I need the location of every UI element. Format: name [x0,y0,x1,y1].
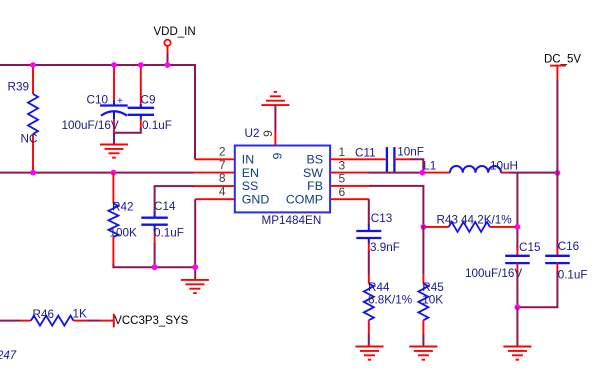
wire [368,334,370,347]
svg-text:0.1uF: 0.1uF [142,119,172,132]
inductor L1 [423,160,518,173]
wire [425,172,450,174]
junction [138,62,144,68]
svg-text:44.2K/1%: 44.2K/1% [461,214,512,227]
wire [154,243,156,267]
wire [115,128,141,133]
wire [501,172,511,174]
junction [515,224,521,230]
svg-text:DC_5V: DC_5V [544,54,581,66]
svg-text:R43: R43 [437,214,458,227]
svg-text:SS: SS [242,179,259,193]
ground [181,280,209,293]
wire [394,158,411,160]
ground [503,347,531,360]
junction [515,304,521,310]
wire [516,271,557,308]
capacitor C11 [355,146,424,173]
wire [330,158,385,160]
svg-text:6.8K/1%: 6.8K/1% [368,294,412,307]
resistor R43 [425,214,515,232]
wire [195,158,235,160]
capacitor C13 [356,212,400,254]
wire [368,199,370,225]
svg-text:EN: EN [242,166,259,180]
wire [516,271,518,308]
svg-text:6: 6 [339,185,346,199]
capacitor C10 [62,65,128,134]
svg-text:9: 9 [261,130,275,137]
wire [516,307,518,347]
junction [420,170,426,176]
svg-text:100K: 100K [110,227,138,240]
svg-text:L1: L1 [423,160,436,173]
svg-text:247: 247 [0,350,17,362]
wire [410,159,423,171]
capacitor C16 [545,240,587,282]
wire [194,185,235,187]
svg-text:3.9nF: 3.9nF [370,241,400,254]
capacitor C9 [128,65,172,132]
wire [167,53,169,65]
resistor R46 [21,308,87,326]
svg-text:1K: 1K [73,308,88,321]
power port VCC3P3_SYS [101,314,189,328]
IC U2 MP1484EN [235,127,330,227]
capacitor C14 [141,200,184,244]
wire [87,320,101,322]
wire [113,133,115,145]
wire [510,172,558,174]
svg-text:C16: C16 [558,240,579,253]
svg-text:0.1uF: 0.1uF [154,227,184,240]
svg-text:+: + [117,96,123,107]
svg-text:IN: IN [242,153,254,167]
junction [30,62,36,68]
junction [192,264,198,270]
svg-text:R42: R42 [112,201,133,214]
svg-text:COMP: COMP [286,193,323,207]
wire [0,172,194,174]
svg-text:7: 7 [219,158,226,172]
wire [195,198,235,200]
wire [556,79,558,250]
svg-text:R45: R45 [422,281,444,294]
svg-text:C13: C13 [371,212,392,225]
ground pin 9 exposed pad [261,92,289,146]
wire [368,251,370,275]
svg-text:C9: C9 [141,93,156,106]
svg-text:C15: C15 [519,241,541,254]
svg-text:4: 4 [219,184,226,198]
svg-text:0.1uF: 0.1uF [558,269,588,282]
junction [152,264,158,270]
svg-text:10uH: 10uH [490,160,518,173]
svg-text:C10: C10 [87,94,109,107]
svg-text:10K: 10K [422,294,443,307]
wire [330,185,370,187]
svg-text:VCC3P3_SYS: VCC3P3_SYS [114,315,188,327]
svg-text:FB: FB [307,179,323,193]
wire [194,199,196,280]
svg-text:C11: C11 [355,147,376,160]
wire [422,225,424,275]
ground [409,347,437,360]
svg-text:R44: R44 [368,281,390,294]
svg-text:R46: R46 [33,308,54,321]
ground [356,347,384,360]
svg-text:GND: GND [242,193,270,207]
svg-text:10nF: 10nF [397,146,424,159]
junction [30,170,36,176]
svg-text:NC: NC [21,133,38,146]
wire [330,198,369,200]
svg-text:100uF/16V: 100uF/16V [465,267,522,280]
ground [100,145,128,158]
junction [421,224,427,230]
resistor R42 [108,173,137,266]
wire [112,264,195,267]
svg-text:5: 5 [339,172,346,186]
svg-text:U2: U2 [245,127,260,140]
svg-text:3: 3 [339,158,346,172]
wire [516,173,518,250]
wire [0,320,21,322]
power port DC_5V [544,54,581,80]
svg-text:BS: BS [306,153,323,167]
junction [555,170,561,176]
svg-text:100uF/16V: 100uF/16V [62,119,119,132]
power port VDD_IN [154,26,196,53]
resistor R45 [418,275,444,335]
wire [422,334,424,347]
wire [330,172,369,174]
svg-text:C14: C14 [154,200,176,213]
junction [111,62,117,68]
capacitor C15 [465,241,541,280]
svg-text:2: 2 [219,145,226,159]
wire [369,172,427,174]
wire [155,186,194,211]
wire [194,172,235,174]
junction [111,170,117,176]
svg-text:9: 9 [271,153,285,160]
wire [370,186,424,225]
resistor R44 [364,275,412,335]
svg-text:8: 8 [219,171,226,185]
wire [0,65,195,159]
junction [165,62,171,68]
svg-text:R39: R39 [8,80,29,93]
svg-text:VDD_IN: VDD_IN [154,26,196,38]
svg-text:SW: SW [303,166,323,180]
svg-text:MP1484EN: MP1484EN [262,214,322,227]
resistor R39 [8,65,39,173]
svg-text:1: 1 [339,145,346,159]
